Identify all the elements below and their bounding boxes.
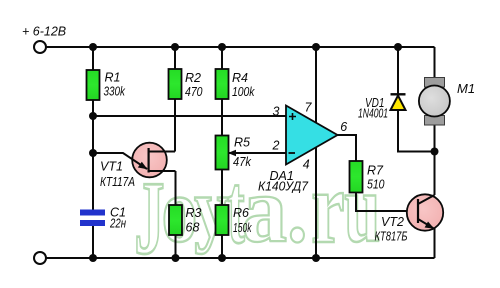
wire noninverting input node bbox=[93, 115, 286, 117]
svg-text:470: 470 bbox=[185, 85, 203, 99]
junction node top R4 bbox=[218, 43, 226, 51]
junction node bottom R6 bbox=[218, 254, 226, 262]
wire pin7 supply bbox=[315, 47, 317, 123]
svg-text:M1: M1 bbox=[457, 81, 475, 96]
svg-text:КТ817Б: КТ817Б bbox=[375, 230, 408, 244]
junction node top R1 bbox=[89, 43, 97, 51]
svg-text:3: 3 bbox=[273, 105, 280, 119]
svg-text:100k: 100k bbox=[232, 85, 255, 99]
svg-text:К140УД7: К140УД7 bbox=[258, 180, 309, 194]
svg-text:VT2: VT2 bbox=[381, 215, 404, 229]
resistor R3 bbox=[169, 205, 182, 235]
junction node top VD1 bbox=[394, 43, 402, 51]
svg-text:7: 7 bbox=[305, 101, 313, 115]
svg-text:330k: 330k bbox=[104, 85, 126, 99]
svg-text:R7: R7 bbox=[367, 164, 384, 178]
terminal + input bbox=[34, 41, 46, 53]
junction node top R2 bbox=[171, 43, 179, 51]
transistor VT1 bbox=[96, 143, 176, 178]
svg-text:R1: R1 bbox=[105, 71, 121, 85]
motor M1 bbox=[419, 78, 450, 126]
wire R4-R5-R6 column bbox=[221, 47, 223, 258]
svg-text:150k: 150k bbox=[233, 221, 252, 235]
svg-text:47k: 47k bbox=[233, 155, 252, 169]
wire pin4 supply bbox=[315, 148, 317, 259]
junction node VT1 emitter bbox=[89, 149, 97, 157]
junction node top pin7 bbox=[312, 43, 320, 51]
svg-text:VT1: VT1 bbox=[100, 160, 123, 174]
junction node bottom R3 bbox=[172, 254, 180, 262]
svg-text:+ 6-12В: + 6-12В bbox=[22, 25, 66, 39]
resistor R2 bbox=[169, 69, 182, 99]
wire top rail bbox=[47, 46, 435, 48]
wire VT2 emitter to bottom rail bbox=[434, 228, 436, 258]
junction node bottom pin4 bbox=[312, 254, 320, 262]
wire left column R1 to C1 bbox=[92, 47, 94, 210]
svg-text:22н: 22н bbox=[109, 217, 126, 231]
transistor VT2 bbox=[407, 194, 443, 230]
R5 wiper arrow bbox=[228, 150, 236, 156]
junction node VT2 collector bbox=[431, 148, 439, 156]
capacitor C1 bbox=[80, 210, 105, 216]
svg-text:R2: R2 bbox=[185, 71, 201, 85]
svg-text:2: 2 bbox=[272, 139, 280, 153]
junction node bottom C1 bbox=[89, 254, 97, 262]
svg-text:510: 510 bbox=[367, 178, 385, 192]
resistor R7 bbox=[350, 161, 363, 193]
wire R3 column bbox=[175, 171, 177, 258]
svg-text:R6: R6 bbox=[233, 206, 249, 220]
terminal - input bbox=[34, 252, 46, 264]
svg-text:68: 68 bbox=[186, 221, 200, 235]
resistor R6 bbox=[216, 205, 229, 235]
resistor R1 bbox=[87, 70, 100, 100]
wire bottom rail bbox=[47, 257, 435, 259]
wire motor to collector node bbox=[434, 125, 436, 195]
svg-text:6: 6 bbox=[340, 120, 347, 134]
svg-text:R3: R3 bbox=[186, 206, 202, 220]
wire C1 to bottom rail bbox=[92, 226, 94, 258]
wire pin6 output to R7 bbox=[338, 135, 357, 161]
resistor R4 bbox=[216, 69, 229, 99]
svg-text:КТ117А: КТ117А bbox=[100, 175, 135, 189]
op-amp DA1 bbox=[286, 106, 338, 165]
svg-text:R5: R5 bbox=[234, 136, 250, 150]
wire motor branch bbox=[434, 47, 436, 78]
svg-text:R4: R4 bbox=[232, 71, 248, 85]
svg-text:1N4001: 1N4001 bbox=[358, 107, 388, 121]
wire R7 to VT2 base bbox=[356, 193, 418, 212]
svg-text:4: 4 bbox=[303, 158, 310, 172]
wire VD1 anode to collector node bbox=[398, 47, 435, 152]
wire inverting input from R5 wiper bbox=[228, 152, 286, 154]
wire R2 column bbox=[174, 47, 176, 152]
resistor R5 potentiometer bbox=[216, 136, 229, 170]
junction node R1 bottom bbox=[89, 112, 97, 120]
diode VD1 bbox=[391, 94, 406, 110]
watermark Joyta.ru bbox=[134, 152, 380, 276]
